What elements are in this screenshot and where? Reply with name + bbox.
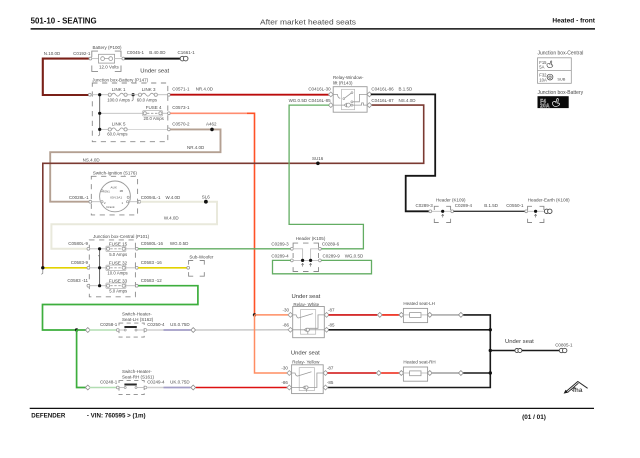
connector C0583-11 [67,278,106,287]
wire B (LH return to rail) [328,315,490,388]
svg-text:C0583 -12: C0583 -12 [141,278,163,283]
eyelet C1661-1 [180,56,188,61]
svg-text:C0416L-87: C0416L-87 [371,98,394,103]
wire O lead (to relay white 30) [255,314,289,316]
fuse FUSE4 20A [101,105,168,121]
svg-text:B.1.5D: B.1.5D [399,87,414,92]
pin -85 (relay white) [324,322,335,332]
connector C0570-2 [168,122,218,131]
svg-text:Junction box-Battery (P147): Junction box-Battery (P147) [92,78,148,83]
wire R lead to heated seat RH [381,372,399,374]
svg-text:FUSE 32: FUSE 32 [109,260,128,265]
svg-text:AUX: AUX [111,186,117,190]
svg-text:IGN 2A1: IGN 2A1 [110,195,122,199]
wire lead C0250-4 [147,322,165,330]
inline connector (heated seat LH left diamond) [399,312,404,317]
footer rule [30,407,594,409]
connector C0571-1 [168,86,214,96]
pin C0416L-87 [367,98,416,108]
svg-text:NS.4.0D: NS.4.0D [83,157,101,162]
svg-text:C0250-4: C0250-4 [147,322,165,327]
svg-text:IGN1: IGN1 [103,190,110,194]
svg-text:NR.4.0D: NR.4.0D [196,86,214,91]
svg-text:Crank: Crank [106,205,115,209]
wire G branch (to RH switch) [77,330,87,388]
svg-text:UK.0.75D: UK.0.75D [170,380,190,385]
svg-text:10A: 10A [539,77,547,82]
svg-text:-86: -86 [281,380,288,385]
wire NR.4.0D (to relay R143 pin 30) [170,94,329,96]
svg-text:C0289-9: C0289-9 [323,253,341,258]
svg-text:C0580L-9: C0580L-9 [68,241,88,246]
switch-heater-seat-RH S161 [100,369,154,395]
wire G stub (to LH switch connector) [77,329,87,331]
pin -85 (relay yellow) [323,380,334,390]
svg-text:LINK 5: LINK 5 [112,122,126,127]
junction box-Central P101 [89,234,149,297]
svg-text:C1661-1: C1661-1 [178,50,196,55]
wire lead (heated seat LH return) [432,314,459,316]
svg-text:A462: A462 [206,122,217,127]
svg-text:FUSE 4: FUSE 4 [146,105,162,110]
svg-text:12.0 Volts: 12.0 Volts [99,65,120,70]
junction box-Battery P147 [92,78,168,142]
logo [564,382,588,394]
inline connector (heated seat LH right diamond) [427,312,432,317]
wire WG.0.5D (fuse15 to header K105) [138,248,290,250]
junction dot P147 row3 with splice tail [98,128,101,136]
svg-text:2B: 2B [120,189,124,193]
junction dot P147 row1 b with splice tail [128,93,139,101]
wire WG loop (K105 C0289-4 to C0289-9) [273,260,372,273]
connector C0289-3 (K109) [416,203,434,213]
svg-text:SUB: SUB [557,76,565,81]
svg-text:-85: -85 [327,380,334,385]
svg-text:C0045-1: C0045-1 [127,50,145,55]
inline connector (US diamond) [191,328,196,333]
connector C0580L-9 [68,241,106,250]
svg-text:Junction box-Battery: Junction box-Battery [538,90,584,96]
inline connector C0248 (diamond) [85,385,90,390]
svg-text:Relay- Yellow: Relay- Yellow [292,360,320,365]
link LINK5 60A [101,122,168,137]
svg-text:C0249-4: C0249-4 [147,380,165,385]
svg-text:Heated seat-RH: Heated seat-RH [403,360,435,365]
svg-text:C0248-1: C0248-1 [100,380,118,385]
internal bus rail P147 [91,95,108,130]
fuse FUSE33 5A [106,278,135,293]
connector C0289-4 (K109) [451,203,524,213]
svg-text:-30: -30 [282,307,289,312]
svg-text:FUSE 33: FUSE 33 [109,278,128,283]
connector C0573-1 [168,105,191,115]
svg-text:WG,0.5D: WG,0.5D [345,253,364,258]
pin -86 (relay white) [282,322,292,332]
connector C0028L-1 [69,195,92,203]
pin -30 (relay white) [282,307,292,317]
wire B.1.5D (relay 86 to header K109) [371,94,435,211]
svg-text:After market heated seats: After market heated seats [260,17,356,26]
svg-text:C0573-1: C0573-1 [172,105,190,110]
svg-text:W.4.0D: W.4.0D [164,216,180,221]
pin -87 (relay yellow) [323,365,334,375]
svg-text:C0571-1: C0571-1 [172,86,190,91]
svg-text:Under seat: Under seat [140,69,169,75]
svg-text:Switch-Heater-: Switch-Heater- [122,369,152,374]
svg-text:LINK 3: LINK 3 [142,87,156,92]
inline connector (RH red diamond) [376,371,381,376]
junction dot seat switch feed [75,328,78,331]
svg-text:C0583-9: C0583-9 [71,260,89,265]
svg-text:(01 / 01): (01 / 01) [522,414,546,421]
wire US.0.75D [164,322,191,330]
wire R lead to heated seat LH [382,314,399,316]
legend junction box-Central [538,50,584,83]
svg-text:WG.0.5D: WG.0.5D [170,241,189,246]
junction dot rail-earth [489,349,492,352]
header K109 [432,197,466,222]
wire B (rail to earth eyelet) [490,350,515,352]
svg-text:C0583 -16: C0583 -16 [141,260,163,265]
svg-text:C0289-6: C0289-6 [322,241,340,246]
wire B (relay white 85 return) [329,329,491,331]
junction dot rail-85 [489,328,492,331]
svg-text:60.0 Amps: 60.0 Amps [107,131,127,136]
junction dot P101 row1 with splice tail [98,247,101,256]
eyelet C0805-1 [555,343,573,353]
inline connector (RH return diamond) [458,371,463,376]
eyelet earth K108 [544,209,552,213]
pin -87 (relay white) [324,307,335,317]
relay Yellow [292,360,324,394]
svg-text:Heated - front: Heated - front [552,19,595,25]
svg-text:SU16: SU16 [312,156,324,161]
wire NS.4.0D (relay 87 to fuse 32 feed) [43,105,424,266]
svg-text:Sub-Woofer: Sub-Woofer [189,255,213,260]
connector C0580L-16 [135,241,189,250]
svg-text:5.0 Amps: 5.0 Amps [109,252,127,257]
svg-text:US.0.75D: US.0.75D [170,322,190,327]
wire U to relay white 86 [196,329,289,331]
svg-text:20.0 Amps: 20.0 Amps [144,116,164,121]
svg-text:501-10 - SEATING: 501-10 - SEATING [31,16,97,26]
header K105 [293,236,326,271]
svg-text:C0289-4: C0289-4 [455,203,473,208]
inline connector (heated seat RH right diamond) [427,371,432,376]
svg-text:5.0 Amps: 5.0 Amps [109,289,127,294]
svg-text:C0416L-86: C0416L-86 [371,87,394,92]
pin C0416L-85 [289,98,334,108]
svg-text:Under seat: Under seat [292,294,321,300]
wire R to relay yellow 86 [196,387,287,389]
junction dot orange branch [253,313,256,316]
svg-text:C0028L-1: C0028L-1 [69,195,89,200]
inline connector (LH red diamond) [377,312,382,317]
svg-text:C0805-1: C0805-1 [555,343,573,348]
svg-text:B.40.0D: B.40.0D [149,50,166,55]
svg-text:Header (K109): Header (K109) [436,197,466,202]
wire N.10.0D (battery to junction box) [43,51,91,95]
inline connector C0258 (diamond) [85,328,90,333]
pin -30 (relay yellow) [281,365,291,375]
svg-text:NR.4.0D: NR.4.0D [187,145,205,150]
svg-text:fha: fha [573,387,583,394]
wire NR.4.0D tan (to ignition switch) [50,129,220,201]
svg-text:- VIN: 760595 > (1m): - VIN: 760595 > (1m) [87,412,146,419]
splice SU16 [312,156,324,165]
wire R (relay white 87 out) [329,314,378,316]
connector C0632-1 [88,93,91,96]
switch-ignition S176 [91,170,138,215]
wire G lead (to S161) [90,387,117,389]
wire O lead (to relay yellow 30) [255,315,288,373]
connector C0289-4 (K105) [271,253,293,261]
relay White [293,302,325,338]
svg-text:-85: -85 [328,322,335,327]
svg-text:C0289-3: C0289-3 [271,241,289,246]
junction dot P147 row2 [98,112,101,115]
svg-text:SL6: SL6 [202,195,211,200]
svg-text:W.4.0D: W.4.0D [166,195,182,200]
wire WG.0.5D (K105 to relay 85) [289,105,363,249]
connector C0094L-1 [138,195,181,203]
svg-text:WG.0.5D C0416L-85: WG.0.5D C0416L-85 [289,98,332,103]
heated seat-RH [403,360,435,382]
svg-text:LINK 1: LINK 1 [112,87,126,92]
wire yellow (NS splice to fuse 32) [43,267,87,269]
junction dot rail-RH [489,371,492,374]
svg-text:60.0 Amps: 60.0 Amps [137,98,157,103]
wire G lead (to S162) [90,329,117,331]
svg-text:-30: -30 [281,365,288,370]
connector C0289-3 (K105) [271,241,293,250]
splice A462 [210,128,214,132]
inline connector (LH return diamond) [458,312,463,317]
svg-text:Junction box-Central: Junction box-Central [538,50,584,56]
fuse FUSE15 5A [106,242,135,257]
pin C0416L-86 [367,87,413,97]
link LINK3 60A [137,87,168,103]
connector C0289-6 (K105) [319,241,340,250]
svg-text:Relay-Window-: Relay-Window- [333,75,364,80]
wire G (fuse33 to seat switches, green) [43,286,198,330]
svg-text:Under seat: Under seat [291,351,320,357]
wire B.40.0D (battery positive cable) [125,50,196,58]
svg-text:Battery (P100): Battery (P100) [93,45,123,50]
internal bus rail P101 [99,249,101,286]
pin -86 (relay yellow) [281,380,291,390]
svg-text:C0550-1: C0550-1 [506,203,524,208]
wire B (RH return to rail) [463,372,490,374]
svg-text:-87: -87 [327,365,334,370]
relay R143 [333,75,367,112]
svg-text:-87: -87 [328,307,335,312]
svg-text:20A: 20A [540,104,550,110]
wire UK.0.75D [164,380,191,388]
connector C0583-9 [71,260,106,269]
svg-text:B.1.5D: B.1.5D [484,203,499,208]
svg-text:C0258-1: C0258-1 [100,322,118,327]
junction dot P101 row3 [98,284,101,287]
connector C0583-12 [135,278,162,287]
fuse FUSE32 10A [106,260,135,275]
svg-text:C0289-4: C0289-4 [271,253,289,258]
switch-heater-seat-LH S162 [100,311,154,337]
svg-text:Heated seat-LH: Heated seat-LH [403,301,435,306]
battery P100 [89,45,125,72]
svg-text:lift (R143): lift (R143) [333,81,353,86]
svg-text:NS.4.0D: NS.4.0D [399,98,417,103]
wire B (to C0805-1) [522,350,559,352]
wire R (relay yellow 87 out) [328,372,377,374]
inline connector (heated seat RH left diamond) [399,371,404,376]
svg-text:Switch-Ignition (S176): Switch-Ignition (S176) [93,170,138,175]
svg-text:5A: 5A [539,65,544,70]
header-earth K108 [525,197,570,222]
svg-text:C0094L-1: C0094L-1 [141,195,161,200]
svg-text:100.0 Amps: 100.0 Amps [107,98,130,103]
wire lead C0249-4 [147,380,165,388]
inline connector rings [515,349,522,353]
connector C0583-16 [135,260,162,269]
svg-text:C0583 -11: C0583 -11 [67,278,88,283]
top rule [31,28,595,30]
junction dot P147 row1 a [98,93,101,96]
svg-text:DEFENDER: DEFENDER [31,412,66,419]
wire B.1.5D (K109 to K108) [454,210,525,212]
svg-text:C0416L-30: C0416L-30 [308,87,331,92]
link LINK1 100A [107,87,130,103]
junction dot P101 row2 [98,266,101,269]
inline connector (UK diamond) [191,385,196,390]
svg-text:N.10.0D: N.10.0D [44,51,61,56]
svg-text:Header-Earth (K108): Header-Earth (K108) [528,197,570,202]
wire yellow (fuse32 to sub-woofer) [138,267,187,269]
svg-text:Switch-Heater-: Switch-Heater- [122,311,152,316]
svg-text:10.0 Amps: 10.0 Amps [107,271,127,276]
heated seat-LH [403,301,435,323]
svg-text:Junction box-Central (P101): Junction box-Central (P101) [93,234,150,239]
svg-text:C0580L-16: C0580L-16 [141,241,164,246]
junction dot NS-yellow with splice tail [41,266,44,274]
sub-woofer [189,255,214,277]
svg-text:C0570-2: C0570-2 [172,122,190,127]
connector C0289-9 (K105) [319,253,364,261]
splice SL6 [202,195,211,204]
legend junction box-Battery [538,90,584,110]
svg-text:C0192-1: C0192-1 [73,51,91,56]
sub-woofer connector [187,266,190,269]
wire O (fuse4 to relays, orange) [170,112,247,114]
svg-text:C0289-3: C0289-3 [416,203,434,208]
wire lead (heated seat RH return) [432,372,459,374]
svg-text:-86: -86 [282,322,289,327]
svg-text:Under seat: Under seat [505,339,534,345]
pin C0416L-30 [308,87,333,97]
wire W.4.0D (ignition feed to fuse box) [51,202,217,249]
